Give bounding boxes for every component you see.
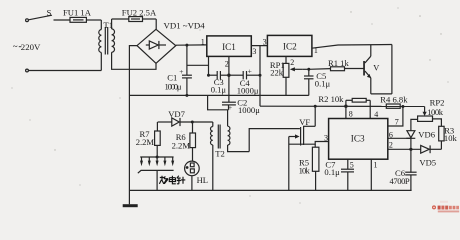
label 放电针 (drawn strokes)	[159, 176, 185, 184]
transformer T2	[210, 110, 249, 191]
svg-text:~: ~	[13, 42, 18, 52]
svg-text:S: S	[47, 8, 52, 18]
svg-text:1: 1	[314, 46, 318, 55]
svg-text:3: 3	[324, 134, 328, 143]
wire AC2 from T1 secondary to bridge bottom	[112, 52, 156, 69]
svg-text:8: 8	[349, 109, 353, 118]
IC IC1	[207, 36, 252, 57]
svg-text:22k: 22k	[270, 67, 284, 77]
wire IC3 pin7 from R4 node	[388, 105, 405, 127]
transformer T1	[99, 20, 115, 55]
svg-text:3: 3	[263, 37, 267, 46]
svg-text:R2 10k: R2 10k	[318, 94, 344, 104]
svg-text:+: +	[179, 67, 183, 76]
potentiometer RP1 22k	[270, 56, 303, 95]
svg-text:4700P: 4700P	[390, 176, 410, 186]
capacitor C1 1000u	[165, 44, 192, 97]
switch S	[26, 8, 70, 22]
svg-text:HL: HL	[197, 175, 208, 185]
svg-text:1000μ: 1000μ	[165, 81, 182, 91]
svg-text:RP2: RP2	[430, 98, 445, 108]
capacitor C7 0.1u on IC3 pin 5	[324, 159, 354, 190]
wire negative rail from bridge left vertex down to ground	[129, 46, 137, 205]
svg-text:0.1μ: 0.1μ	[315, 79, 331, 89]
svg-text:V: V	[373, 64, 379, 73]
resistor R1 1k	[309, 58, 364, 71]
wire	[100, 53, 102, 71]
svg-text:FU1 1A: FU1 1A	[63, 8, 92, 18]
svg-text:1000μ: 1000μ	[237, 86, 259, 96]
svg-text:VD7: VD7	[168, 109, 185, 119]
capacitor C4 1000u	[229, 67, 262, 96]
wire IC3 pin2	[388, 148, 421, 150]
wire pin3 node down to R2	[259, 46, 261, 107]
resistor R2 10k	[318, 94, 370, 106]
wire IC1 bottom pin to C3 wire	[208, 56, 210, 75]
resistor R7 2.2M	[136, 122, 161, 157]
svg-text:1: 1	[374, 160, 378, 169]
svg-text:VD6: VD6	[418, 129, 435, 139]
svg-text:5: 5	[350, 160, 354, 169]
svg-text:0.1μ: 0.1μ	[211, 85, 227, 95]
fuse FU2 2.5A	[122, 7, 157, 21]
svg-text:2.2M: 2.2M	[136, 137, 155, 147]
svg-text:IC3: IC3	[351, 134, 365, 144]
resistor R5 10k	[299, 144, 319, 190]
svg-text:IC2: IC2	[283, 42, 297, 52]
ground	[123, 204, 138, 207]
svg-text:2: 2	[225, 59, 229, 68]
wire IC2 pin1 right to rail corner	[312, 45, 392, 49]
wire IC3 pin1 to rail	[370, 159, 372, 190]
transistor V	[363, 45, 392, 94]
svg-text:+: +	[248, 67, 252, 76]
bridge rectifier VD1~VD4	[137, 21, 205, 64]
svg-text:6: 6	[389, 130, 393, 139]
IC IC2	[267, 35, 312, 56]
wire mid ground rail	[129, 94, 308, 96]
wire	[155, 19, 157, 29]
svg-text:1000μ: 1000μ	[238, 105, 260, 115]
svg-text:1: 1	[201, 37, 205, 46]
lamp HL	[185, 161, 208, 190]
wire R2/R4 feed line	[260, 105, 425, 107]
svg-text:R1 1k: R1 1k	[328, 58, 349, 68]
wire bottom rail	[129, 189, 411, 191]
wire IC3 pin8	[345, 106, 347, 118]
wire C1 branch	[187, 64, 209, 66]
wire RP2 left to VD6	[411, 119, 418, 130]
potentiometer RP2 100k	[418, 98, 445, 122]
svg-text:IC1: IC1	[222, 42, 236, 52]
wire IC3 pin6	[388, 137, 411, 139]
capacitor C2 1000u	[208, 95, 261, 115]
discharge needles (fang dian zhen)	[138, 156, 174, 191]
svg-text:+: +	[228, 103, 232, 112]
watermark logo	[432, 201, 459, 213]
svg-text:FU2 2.5A: FU2 2.5A	[122, 7, 157, 17]
svg-text:3: 3	[252, 47, 256, 56]
capacitor C6 4700P	[390, 138, 417, 190]
fuse FU1 1A	[63, 8, 101, 23]
wire positive rail to IC1 pin1	[176, 44, 207, 46]
resistor R4 6.8k	[380, 95, 408, 109]
svg-text:2: 2	[290, 58, 294, 67]
diode VD5	[419, 145, 441, 167]
resistor R6 2.2M	[172, 122, 196, 161]
wire RP2 right to R3	[433, 119, 442, 126]
resistor R3 10k	[439, 125, 458, 149]
svg-text:2.2M: 2.2M	[172, 140, 191, 150]
svg-text:100k: 100k	[427, 107, 444, 117]
capacitor C3 0.1u	[209, 71, 229, 95]
wire	[111, 19, 113, 29]
wire	[28, 70, 101, 72]
wire IC1 pin2 down	[228, 56, 230, 102]
svg-text:VF: VF	[299, 117, 310, 127]
svg-text:220V: 220V	[21, 42, 41, 52]
transistor VF (MOSFET)	[249, 106, 328, 190]
svg-text:VD1 ~VD4: VD1 ~VD4	[164, 21, 206, 31]
diode VD7	[158, 109, 213, 126]
IC IC3	[329, 119, 388, 160]
svg-text:2: 2	[389, 140, 393, 149]
svg-text:7: 7	[395, 118, 399, 127]
svg-text:R4 6.8k: R4 6.8k	[380, 95, 408, 105]
wire IC1 to IC2 (pin 3)	[251, 45, 267, 47]
wire	[100, 20, 102, 30]
svg-text:0.1μ: 0.1μ	[324, 167, 340, 177]
node terminal	[26, 69, 29, 72]
capacitor C5 0.1u	[303, 68, 331, 96]
svg-text:10k: 10k	[444, 133, 458, 143]
wire IC3 pin4	[369, 100, 371, 118]
svg-text:10k: 10k	[299, 166, 311, 176]
svg-text:T2: T2	[215, 148, 225, 158]
diode VD6	[406, 129, 435, 139]
svg-text:VD5: VD5	[419, 157, 436, 167]
